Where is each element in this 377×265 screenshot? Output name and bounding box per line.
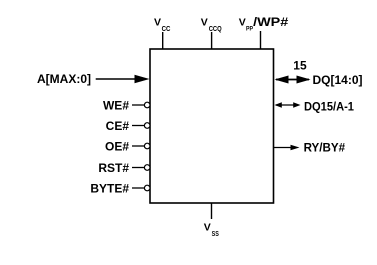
DQ15/A-1 label: [304, 99, 354, 113]
svg-text:/WP#: /WP#: [253, 15, 289, 29]
svg-text:DQ[14:0]: DQ[14:0]: [313, 73, 363, 87]
svg-text:V: V: [154, 17, 161, 29]
BYTE# inversion bubble: [144, 185, 150, 191]
RY/BY# output wire with arrowhead: [274, 145, 300, 151]
DQ[14:0] label: [313, 73, 363, 87]
WE# label: [103, 98, 129, 112]
DQ15/A-1 bidirectional wire: [275, 102, 301, 108]
OE# label: [105, 139, 129, 153]
RST# inversion bubble: [144, 165, 150, 171]
svg-text:CC: CC: [162, 26, 171, 33]
OE# wire: [132, 145, 144, 147]
BYTE# wire: [132, 187, 144, 189]
Vpp/WP# lead wire: [260, 31, 262, 49]
CE# inversion bubble: [144, 123, 150, 129]
svg-text:DQ15/A-1: DQ15/A-1: [304, 99, 354, 113]
svg-text:A[MAX:0]: A[MAX:0]: [37, 72, 91, 86]
svg-text:V: V: [239, 17, 246, 29]
A[MAX:0] label: [37, 72, 91, 86]
DQ[14:0] bidirectional bus wire: [275, 76, 311, 84]
Vcc label: [154, 17, 170, 34]
RY/BY# label: [304, 140, 346, 154]
svg-text:OE#: OE#: [105, 139, 129, 153]
chip body U1: [150, 49, 274, 203]
CE# wire: [132, 125, 144, 127]
Vcc lead wire: [162, 32, 164, 49]
svg-text:WE#: WE#: [103, 98, 129, 112]
WE# wire: [132, 104, 144, 106]
svg-text:V: V: [204, 222, 211, 234]
WE# inversion bubble: [144, 102, 150, 108]
svg-text:RY/BY#: RY/BY#: [304, 140, 346, 154]
svg-text:V: V: [201, 16, 208, 28]
svg-text:15: 15: [293, 59, 307, 73]
svg-text:CE#: CE#: [106, 119, 130, 133]
svg-text:SS: SS: [212, 231, 219, 238]
BYTE# label: [90, 181, 129, 195]
RST# label: [98, 161, 129, 175]
Vss label: [204, 222, 219, 238]
bus width label 15: [293, 59, 307, 73]
RST# wire: [132, 167, 144, 169]
svg-text:BYTE#: BYTE#: [90, 181, 129, 195]
Vccq lead wire: [211, 32, 213, 49]
CE# label: [106, 119, 130, 133]
svg-text:RST#: RST#: [98, 161, 129, 175]
svg-text:CCQ: CCQ: [209, 26, 222, 33]
OE# inversion bubble: [144, 143, 150, 149]
Vpp/WP# label: [239, 15, 289, 33]
A[MAX:0] input wire with arrowhead: [96, 75, 150, 84]
Vccq label: [201, 16, 222, 33]
Vss lead wire: [211, 203, 213, 219]
